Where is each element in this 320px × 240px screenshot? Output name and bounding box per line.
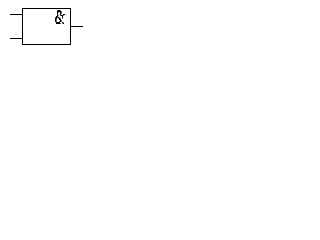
and-gate body U1 (IEC rectangular outline) bbox=[23, 9, 71, 45]
wire output bbox=[71, 26, 84, 28]
wire input A bbox=[10, 14, 23, 16]
wire input B bbox=[10, 38, 23, 40]
label & antialiased gray pixels bbox=[55, 10, 64, 24]
label & (AND function qualifier), drawn as pixel-exact glyph bbox=[55, 10, 65, 24]
